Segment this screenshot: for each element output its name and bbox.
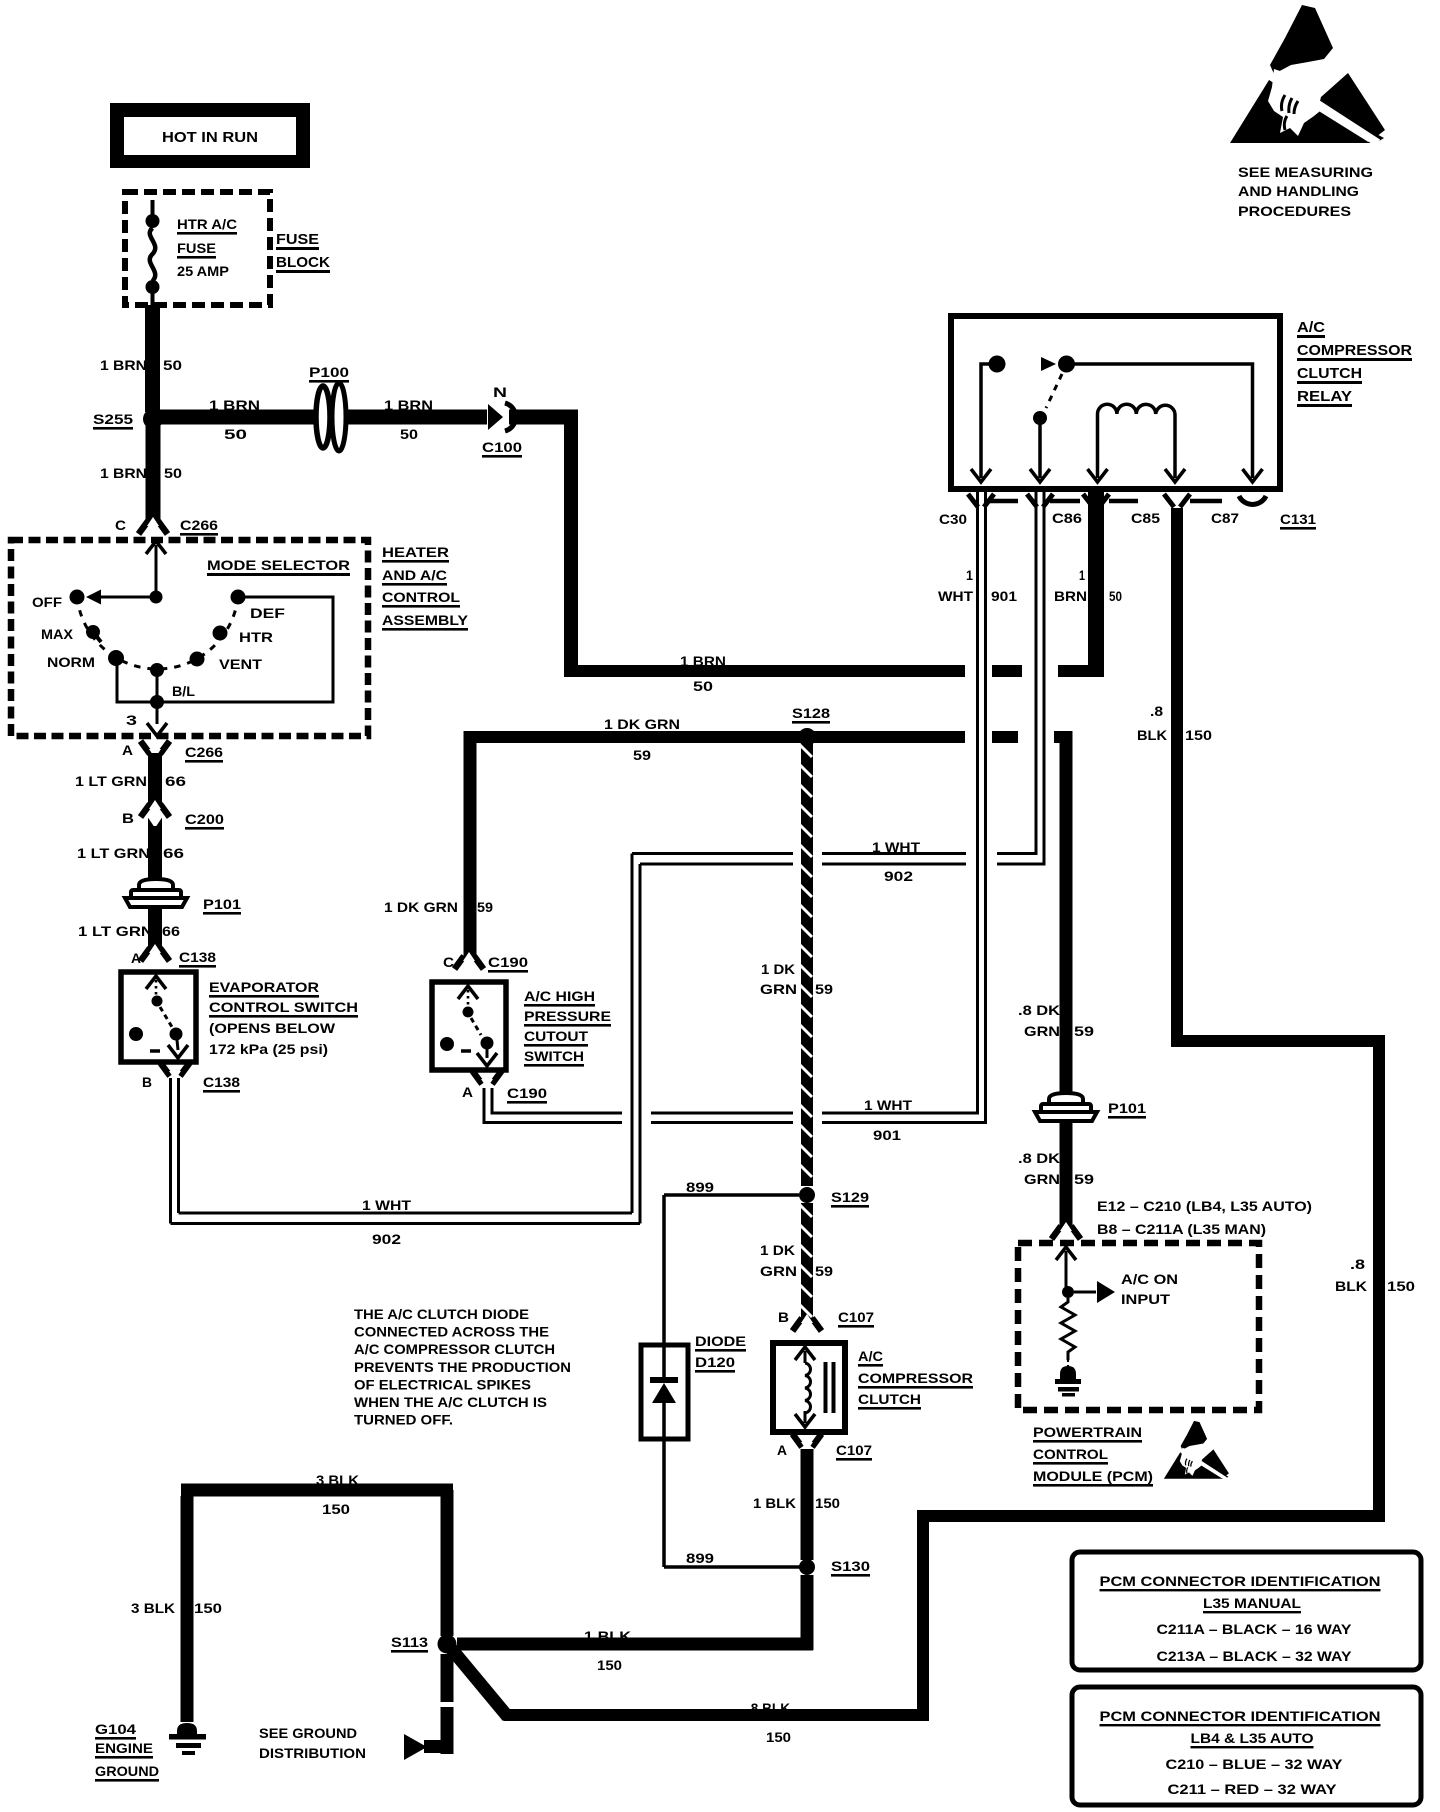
wire 1 DK GRN 59 S129 to C107 (hatched) (801, 1203, 813, 1320)
evaporator control switch contacts (146, 976, 166, 989)
svg-text:S255: S255 (93, 411, 133, 427)
svg-text:S129: S129 (831, 1189, 869, 1205)
wire 1 BRN 50 fuse to S255 (145, 305, 160, 412)
svg-text:OFF: OFF (32, 594, 62, 610)
connector into PCM (1052, 1226, 1081, 1239)
heater and A/C control assembly dashed box (11, 540, 368, 736)
svg-text:1 DK: 1 DK (760, 1242, 795, 1258)
connector C107 pin A (793, 1434, 822, 1447)
relay common contact wire (pin C30) (981, 364, 994, 478)
svg-text:MODULE (PCM): MODULE (PCM) (1033, 1468, 1153, 1484)
svg-text:HEATER: HEATER (382, 544, 449, 560)
mode selector HTR contact (213, 626, 228, 641)
pass-through grommet P101 right (1049, 1093, 1083, 1105)
wire 1 LT GRN 66 C200 to P101 (148, 826, 162, 880)
svg-text:PREVENTS THE PRODUCTION: PREVENTS THE PRODUCTION (354, 1360, 571, 1375)
splice S128 (798, 728, 816, 746)
svg-text:GRN: GRN (760, 1263, 797, 1279)
svg-text:C138: C138 (179, 949, 216, 965)
svg-text:3: 3 (126, 712, 137, 728)
wire 899 diode top (664, 1193, 799, 1197)
mode selector pivot junction (150, 591, 163, 604)
svg-text:1: 1 (1079, 567, 1085, 583)
svg-text:B: B (122, 810, 134, 826)
svg-text:1 DK GRN: 1 DK GRN (384, 899, 458, 915)
svg-text:P100: P100 (309, 364, 349, 380)
wire .8 BLK 150 relay C87 to S113 (long loop) (1171, 508, 1183, 1047)
svg-text:SEE MEASURING: SEE MEASURING (1238, 164, 1373, 180)
svg-text:172 kPa (25 psi): 172 kPa (25 psi) (209, 1041, 328, 1057)
svg-text:WHT: WHT (938, 588, 973, 604)
svg-text:.8: .8 (1150, 703, 1163, 719)
svg-text:50: 50 (224, 426, 247, 442)
wire 1 BLK 150 S113 to S130 (457, 1638, 813, 1651)
svg-text:GRN: GRN (1024, 1171, 1060, 1187)
svg-text:1 BLK: 1 BLK (584, 1628, 631, 1644)
relay fixed contact + wire to pin C87 (1041, 357, 1056, 371)
svg-text:C213A – BLACK – 32 WAY: C213A – BLACK – 32 WAY (1157, 1648, 1353, 1664)
svg-text:CONTROL: CONTROL (1033, 1446, 1108, 1462)
svg-text:BLOCK: BLOCK (276, 254, 330, 271)
relay coil (1096, 414, 1100, 478)
evaporator control switch box (121, 972, 196, 1062)
svg-text:FUSE: FUSE (276, 231, 319, 248)
svg-text:3 BLK: 3 BLK (316, 1472, 359, 1488)
connector C138 pin B (161, 1063, 190, 1076)
svg-text:150: 150 (1185, 727, 1212, 743)
wire .8 DK GRN 59 P101 to PCM (1060, 1122, 1073, 1228)
svg-text:MODE SELECTOR: MODE SELECTOR (207, 557, 350, 573)
svg-text:HOT IN RUN: HOT IN RUN (162, 129, 258, 146)
svg-text:C86: C86 (1052, 510, 1082, 526)
wire 1 DK GRN 59 horizontal (470, 731, 965, 743)
svg-text:C107: C107 (838, 1309, 874, 1325)
svg-text:GROUND: GROUND (95, 1763, 159, 1779)
svg-text:1 LT GRN: 1 LT GRN (75, 773, 147, 789)
wire S113 diagonal to .8 BLK run (449, 1646, 508, 1717)
svg-text:1 WHT: 1 WHT (864, 1097, 912, 1113)
svg-text:150: 150 (194, 1600, 222, 1616)
svg-text:GRN: GRN (1024, 1023, 1060, 1039)
svg-text:899: 899 (686, 1550, 714, 1566)
svg-text:C87: C87 (1211, 510, 1239, 526)
svg-text:1: 1 (966, 567, 973, 583)
svg-text:DISTRIBUTION: DISTRIBUTION (259, 1745, 366, 1761)
svg-text:BLK: BLK (1137, 727, 1167, 743)
diode D120 box (641, 1345, 688, 1439)
svg-text:CONTROL: CONTROL (382, 589, 460, 605)
svg-text:C266: C266 (180, 517, 218, 533)
connector C100 pin N (488, 404, 503, 430)
svg-text:150: 150 (1387, 1278, 1415, 1294)
svg-text:59: 59 (815, 1263, 833, 1279)
diode symbol (652, 1383, 676, 1403)
wire S113 to ground distribution (441, 1654, 454, 1702)
svg-text:AND A/C: AND A/C (382, 567, 447, 583)
svg-text:1 LT GRN: 1 LT GRN (78, 923, 153, 939)
svg-text:.8: .8 (1350, 1256, 1365, 1272)
svg-text:1 LT GRN: 1 LT GRN (77, 845, 150, 861)
svg-text:66: 66 (165, 773, 186, 789)
svg-text:50: 50 (1109, 588, 1122, 604)
svg-text:COMPRESSOR: COMPRESSOR (858, 1370, 973, 1386)
svg-text:A/C ON: A/C ON (1121, 1271, 1178, 1287)
svg-text:HTR: HTR (239, 629, 273, 645)
relay pin arrows (971, 469, 991, 482)
connector C266 pin A (141, 741, 170, 754)
svg-text:B/L: B/L (172, 683, 195, 699)
svg-text:59: 59 (1074, 1023, 1094, 1039)
svg-text:150: 150 (597, 1657, 622, 1673)
wire 1 LT GRN 66 P101 to C138 (148, 908, 162, 950)
wire 1 BRN 50 C100 to relay C85 (down, right, up) (509, 410, 578, 425)
splice S129 (799, 1187, 815, 1203)
svg-text:N: N (493, 384, 507, 400)
svg-text:1 DK: 1 DK (761, 961, 795, 977)
wire 1 BRN 50 S255 to C266 (146, 426, 161, 524)
svg-text:1 WHT: 1 WHT (872, 839, 920, 855)
clutch coil symbol (795, 1347, 815, 1360)
svg-text:HTR A/C: HTR A/C (177, 216, 237, 232)
svg-text:MAX: MAX (41, 626, 74, 642)
connector C190 pin A (473, 1071, 502, 1084)
svg-text:66: 66 (163, 845, 184, 861)
mode selector output junction (150, 695, 164, 709)
svg-text:C210 – BLUE – 32 WAY: C210 – BLUE – 32 WAY (1166, 1756, 1344, 1772)
svg-text:TURNED OFF.: TURNED OFF. (354, 1413, 453, 1428)
svg-text:BLK: BLK (1335, 1278, 1367, 1294)
svg-text:S113: S113 (391, 1634, 428, 1650)
svg-text:66: 66 (162, 923, 180, 939)
svg-text:899: 899 (686, 1179, 714, 1195)
svg-text:RELAY: RELAY (1297, 388, 1352, 405)
mode selector contact arc (dashed) (77, 597, 238, 669)
svg-text:CLUTCH: CLUTCH (858, 1391, 921, 1407)
wire 1 DK GRN 59 S128 to S129 (hatched) (801, 743, 813, 1186)
svg-text:A/C COMPRESSOR CLUTCH: A/C COMPRESSOR CLUTCH (354, 1342, 555, 1357)
svg-text:.8 DK: .8 DK (1018, 1002, 1060, 1018)
svg-text:.8 DK: .8 DK (1018, 1150, 1060, 1166)
svg-text:NORM: NORM (47, 654, 95, 670)
svg-text:PRESSURE: PRESSURE (524, 1008, 611, 1024)
A/C high pressure cutout switch box (432, 982, 506, 1070)
wire pivot to OFF contact (101, 596, 156, 599)
svg-text:C131: C131 (1280, 511, 1316, 527)
splice S255 (143, 409, 163, 429)
wire 1 BRN 50 P100 to C100 (347, 410, 487, 425)
svg-text:1 BRN: 1 BRN (680, 653, 726, 669)
splice S113 (438, 1635, 457, 1654)
svg-text:ENGINE: ENGINE (95, 1740, 153, 1756)
svg-text:50: 50 (163, 357, 182, 373)
svg-text:SWITCH: SWITCH (524, 1048, 584, 1064)
svg-text:C85: C85 (1131, 510, 1160, 526)
svg-text:CLUTCH: CLUTCH (1297, 365, 1362, 382)
mode selector OFF contact (70, 590, 85, 605)
PCM connector identification table LB4 & L35 auto (1072, 1687, 1421, 1805)
svg-text:EVAPORATOR: EVAPORATOR (209, 979, 319, 995)
connector C200 pin B (141, 804, 170, 817)
wire 899 diode bottom (662, 1439, 666, 1567)
svg-text:59: 59 (477, 899, 493, 915)
svg-text:PROCEDURES: PROCEDURES (1238, 203, 1351, 219)
svg-text:P101: P101 (203, 896, 241, 912)
pass-through grommet P101 left (139, 879, 173, 891)
svg-text:D120: D120 (695, 1354, 735, 1370)
mode selector entry arrow (146, 541, 166, 554)
svg-text:PCM CONNECTOR IDENTIFICATION: PCM CONNECTOR IDENTIFICATION (1100, 1708, 1381, 1724)
svg-text:(OPENS BELOW: (OPENS BELOW (209, 1020, 336, 1036)
svg-text:.8 BLK: .8 BLK (747, 1700, 790, 1716)
high pressure switch contacts (458, 986, 478, 999)
svg-text:G104: G104 (95, 1721, 136, 1737)
svg-text:OF ELECTRICAL SPIKES: OF ELECTRICAL SPIKES (354, 1377, 531, 1392)
ESD symbol large (1230, 5, 1385, 143)
svg-text:1 WHT: 1 WHT (362, 1197, 411, 1213)
relay movable contact (dashed) (1046, 374, 1062, 408)
svg-text:SEE GROUND: SEE GROUND (259, 1725, 357, 1741)
A/C compressor clutch relay box (951, 316, 1280, 489)
svg-text:902: 902 (372, 1231, 401, 1247)
svg-text:DEF: DEF (250, 605, 286, 621)
mode selector output loop wire (117, 597, 333, 702)
svg-text:150: 150 (815, 1495, 840, 1511)
svg-text:CONTROL SWITCH: CONTROL SWITCH (209, 999, 358, 1015)
svg-text:C107: C107 (836, 1442, 872, 1458)
svg-text:CUTOUT: CUTOUT (524, 1028, 588, 1044)
svg-text:C211 – RED – 32 WAY: C211 – RED – 32 WAY (1168, 1781, 1338, 1797)
splice S130 (799, 1559, 815, 1575)
svg-text:A/C HIGH: A/C HIGH (524, 988, 595, 1004)
A/C compressor clutch box (773, 1343, 845, 1432)
svg-text:C138: C138 (203, 1074, 240, 1090)
svg-text:LB4 & L35 AUTO: LB4 & L35 AUTO (1191, 1730, 1314, 1746)
svg-text:1 BLK: 1 BLK (753, 1495, 796, 1511)
PCM pull-up resistor (1061, 1298, 1075, 1360)
svg-text:CONNECTED ACROSS THE: CONNECTED ACROSS THE (354, 1325, 549, 1340)
PCM connector identification table L35 manual (1072, 1552, 1421, 1670)
svg-text:3 BLK: 3 BLK (131, 1600, 175, 1616)
connector C266 pin C (139, 521, 168, 534)
svg-text:B8 – C211A (L35 MAN): B8 – C211A (L35 MAN) (1097, 1221, 1266, 1237)
wire 1 WHT 902 C138-B to relay C86 (169, 1078, 172, 1224)
svg-text:VENT: VENT (219, 656, 263, 672)
svg-text:C30: C30 (939, 511, 967, 527)
connector C190 pin C (455, 956, 484, 969)
svg-text:P101: P101 (1108, 1100, 1146, 1116)
svg-text:WHEN THE A/C CLUTCH IS: WHEN THE A/C CLUTCH IS (354, 1395, 547, 1410)
pass-through grommet P100 (316, 386, 330, 448)
wire 1 DK GRN 59 down to C190 (464, 731, 477, 958)
svg-text:C211A – BLACK – 16 WAY: C211A – BLACK – 16 WAY (1157, 1621, 1353, 1637)
mode selector MAX contact (86, 625, 100, 639)
svg-text:A: A (462, 1084, 473, 1100)
svg-text:50: 50 (693, 678, 713, 694)
connector C138 pin A (141, 948, 170, 961)
clutch plates (824, 1362, 828, 1413)
wire 1 BRN 50 S255 to P100 (160, 410, 315, 425)
wire 3 BLK 150 G104 to S113 (181, 1496, 194, 1722)
svg-text:A: A (122, 742, 133, 758)
svg-text:150: 150 (766, 1729, 791, 1745)
svg-text:S130: S130 (831, 1558, 870, 1574)
svg-text:B: B (142, 1074, 152, 1090)
mode selector B/L contact (150, 663, 164, 677)
svg-text:50: 50 (400, 426, 418, 442)
svg-text:25 AMP: 25 AMP (177, 263, 229, 279)
mode selector pin 3 exit wire (156, 702, 159, 724)
wire 1 WHT 901 C190-A to relay C30 (483, 1088, 486, 1124)
svg-text:C190: C190 (507, 1085, 547, 1101)
svg-text:L35 MANUAL: L35 MANUAL (1203, 1595, 1301, 1611)
relay switched terminal (pin C86) (1033, 411, 1047, 425)
svg-text:1 BRN: 1 BRN (100, 465, 147, 481)
wire S130 down to 1 BLK 150 run (801, 1575, 814, 1650)
svg-text:59: 59 (815, 981, 833, 997)
svg-text:C100: C100 (482, 439, 522, 455)
powertrain control module dashed box (1018, 1243, 1259, 1410)
svg-text:901: 901 (873, 1127, 901, 1143)
svg-text:A: A (777, 1442, 787, 1458)
svg-text:902: 902 (884, 868, 913, 884)
svg-text:POWERTRAIN: POWERTRAIN (1033, 1424, 1142, 1440)
svg-text:E12 – C210 (LB4, L35 AUTO): E12 – C210 (LB4, L35 AUTO) (1097, 1198, 1312, 1214)
svg-text:59: 59 (1074, 1171, 1094, 1187)
engine ground G104 (177, 1723, 197, 1734)
svg-text:ASSEMBLY: ASSEMBLY (382, 612, 469, 628)
svg-text:C266: C266 (185, 744, 223, 760)
svg-text:A/C: A/C (858, 1348, 883, 1364)
svg-text:A: A (131, 950, 141, 966)
mode selector NORM contact (108, 650, 124, 666)
svg-text:PCM CONNECTOR IDENTIFICATION: PCM CONNECTOR IDENTIFICATION (1100, 1573, 1381, 1589)
svg-text:1 BRN: 1 BRN (100, 357, 147, 373)
PCM internal ground (1060, 1366, 1076, 1379)
svg-text:THE A/C CLUTCH DIODE: THE A/C CLUTCH DIODE (354, 1307, 529, 1322)
wire .8 DK GRN 59 S128 to P101 (1060, 743, 1073, 1095)
wire 1 LT GRN 66 C266 to C200 (148, 753, 162, 806)
PCM A/C ON input circuit (1056, 1247, 1076, 1260)
svg-text:C: C (443, 954, 454, 970)
mode selector DEF contact (231, 590, 246, 605)
svg-text:COMPRESSOR: COMPRESSOR (1297, 342, 1412, 359)
power label box HOT IN RUN (110, 103, 310, 168)
svg-text:1 BRN: 1 BRN (209, 397, 260, 413)
svg-text:901: 901 (991, 588, 1017, 604)
relay connector row C131 (dashed) (989, 499, 1018, 504)
connector C107 pin B (793, 1318, 822, 1331)
svg-text:C200: C200 (185, 811, 224, 827)
fuse HTR A/C 25 AMP (151, 200, 155, 216)
svg-text:1 BRN: 1 BRN (384, 397, 433, 413)
svg-text:50: 50 (164, 465, 182, 481)
svg-text:150: 150 (322, 1501, 350, 1517)
svg-text:A/C: A/C (1297, 319, 1325, 336)
svg-text:GRN: GRN (760, 981, 797, 997)
svg-text:BRN: BRN (1054, 588, 1087, 604)
wire 1 BLK 150 C107 to S130 (801, 1449, 814, 1560)
svg-text:C190: C190 (488, 954, 528, 970)
svg-text:B: B (778, 1309, 789, 1325)
svg-text:1 DK GRN: 1 DK GRN (604, 716, 680, 732)
svg-text:AND HANDLING: AND HANDLING (1238, 183, 1359, 199)
svg-text:FUSE: FUSE (177, 240, 216, 256)
svg-text:S128: S128 (792, 705, 830, 721)
fuse block dashed box (125, 192, 270, 305)
svg-text:INPUT: INPUT (1121, 1291, 1171, 1307)
ESD symbol small (1164, 1421, 1229, 1479)
svg-text:C: C (115, 517, 126, 533)
svg-text:DIODE: DIODE (695, 1333, 746, 1349)
mode selector VENT contact (190, 652, 205, 667)
svg-text:59: 59 (633, 747, 651, 763)
